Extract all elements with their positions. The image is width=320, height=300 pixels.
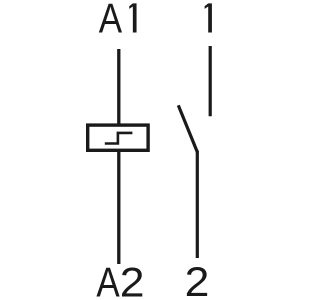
wire A1 to coil <box>117 49 120 125</box>
svg-text:A: A <box>96 260 120 300</box>
wire blade pivot to terminal 2 <box>196 151 199 259</box>
svg-text:A: A <box>99 0 123 42</box>
terminal label 1 <box>205 3 212 32</box>
fixed contact wire from terminal 1 <box>209 46 212 116</box>
terminal label A1 <box>99 0 137 42</box>
coil K1 (impulse relay coil box) <box>88 125 148 150</box>
terminal label A2 <box>96 260 144 300</box>
switch blade (open contact) <box>178 105 197 152</box>
svg-text:2: 2 <box>120 260 145 300</box>
svg-text:2: 2 <box>185 259 210 300</box>
terminal label 2 <box>185 259 210 300</box>
step-function symbol inside coil <box>105 133 133 144</box>
wire coil to A2 <box>117 151 120 264</box>
